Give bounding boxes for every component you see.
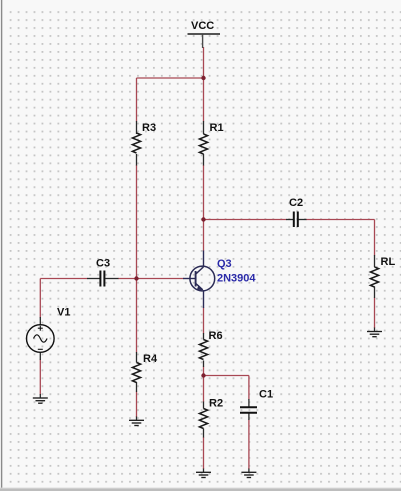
svg-text:V1: V1 xyxy=(57,307,70,319)
svg-text:R1: R1 xyxy=(210,122,224,134)
svg-text:R3: R3 xyxy=(142,122,156,134)
svg-text:Q3: Q3 xyxy=(217,258,232,270)
svg-text:VCC: VCC xyxy=(191,20,214,32)
svg-text:RL: RL xyxy=(381,256,396,268)
svg-text:2N3904: 2N3904 xyxy=(217,273,256,285)
svg-text:R6: R6 xyxy=(209,330,223,342)
svg-text:R2: R2 xyxy=(209,398,223,410)
svg-text:C1: C1 xyxy=(259,389,273,401)
svg-text:R4: R4 xyxy=(143,353,158,365)
svg-text:C3: C3 xyxy=(96,258,110,270)
svg-text:C2: C2 xyxy=(289,197,303,209)
